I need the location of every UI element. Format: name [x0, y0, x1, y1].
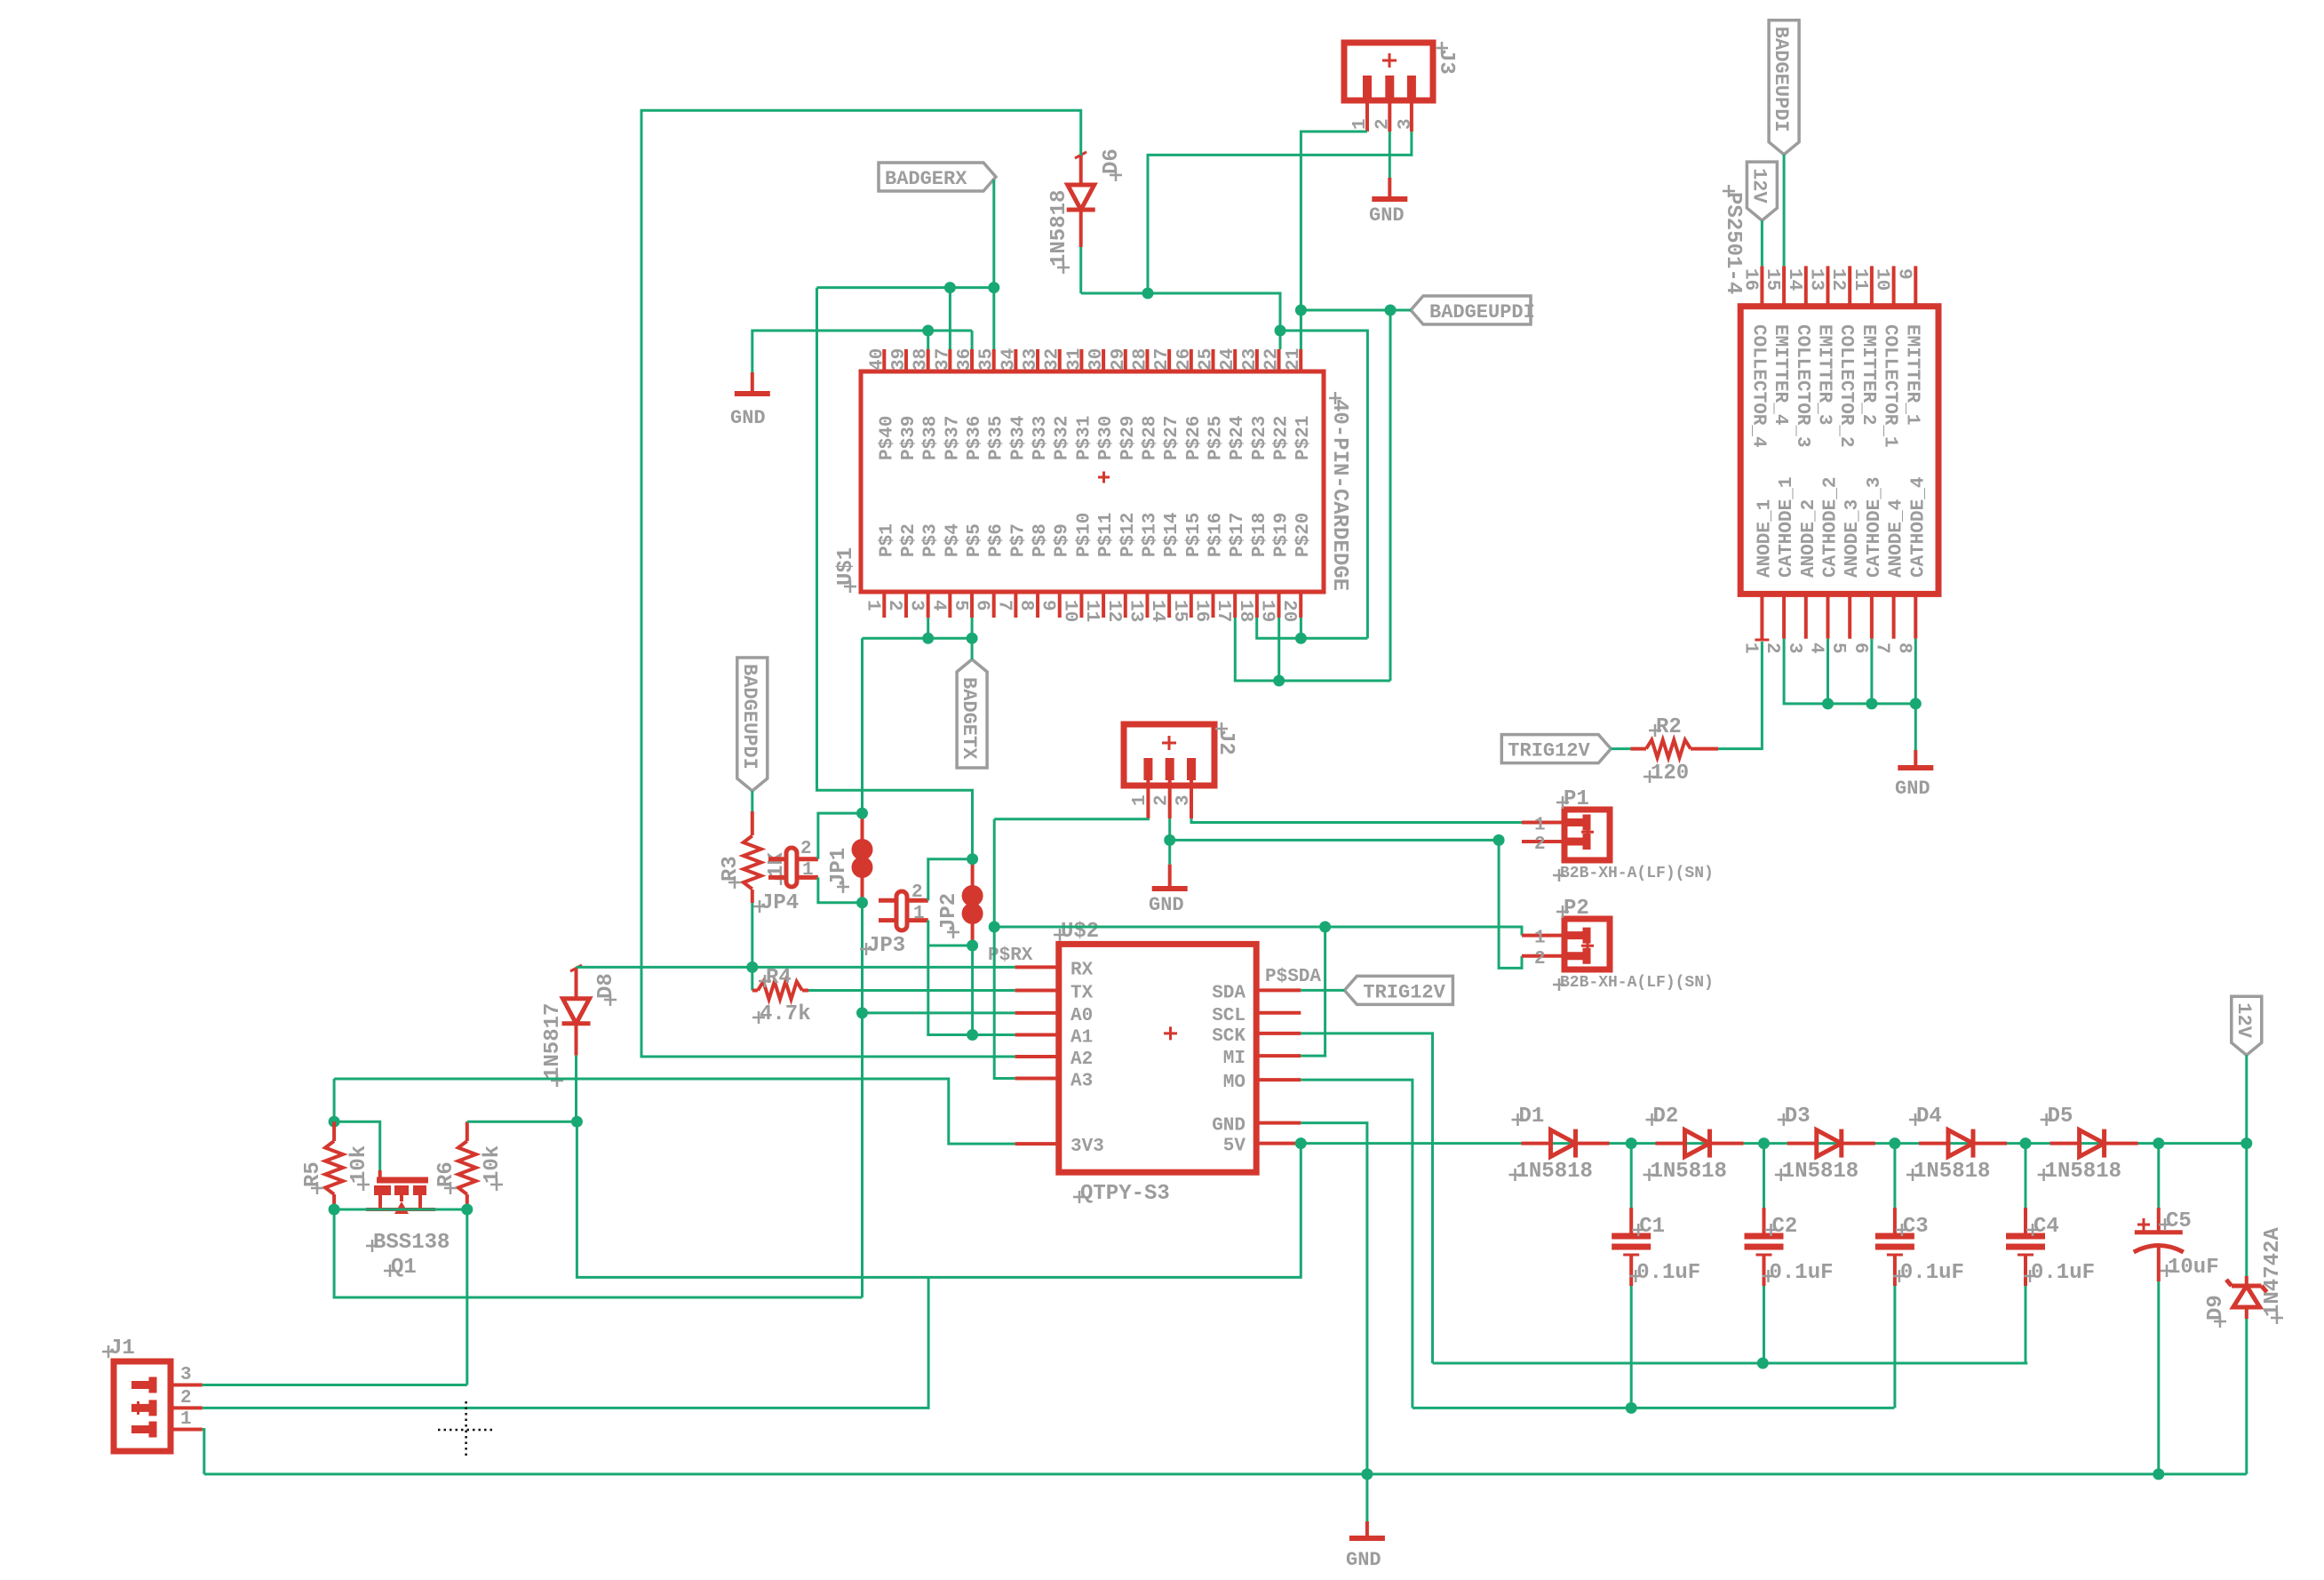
svg-text:18: 18	[1235, 600, 1255, 622]
wire C4 bottom	[2025, 1286, 2027, 1363]
wire JP4 pin1 bracket	[818, 877, 863, 902]
svg-text:P$6: P$6	[987, 523, 1007, 557]
svg-text:P$22: P$22	[1272, 416, 1293, 460]
svg-text:0.1uF: 0.1uF	[1636, 1261, 1700, 1285]
wire source down to A0 rail	[334, 1209, 862, 1297]
svg-text:1N5818: 1N5818	[2045, 1160, 2121, 1184]
wire MI/J2 row	[994, 927, 1522, 936]
wire J1 pin1 to GND rail	[203, 1430, 204, 1474]
jumper JP4	[753, 839, 818, 915]
resistor R3 1K	[719, 811, 789, 903]
svg-text:P$26: P$26	[1184, 416, 1205, 460]
svg-text:EMITTER_2: EMITTER_2	[1858, 324, 1878, 425]
net label TRIG12V (at SDA)	[1344, 976, 1452, 1004]
svg-text:P$16: P$16	[1206, 513, 1227, 557]
wire PS GND drop	[1914, 704, 1917, 750]
svg-text:P$4: P$4	[943, 523, 963, 557]
svg-text:P$9: P$9	[1053, 523, 1073, 557]
svg-text:JP3: JP3	[867, 934, 905, 958]
svg-text:RX: RX	[1070, 960, 1094, 980]
wire C1 top	[1630, 1144, 1633, 1208]
svg-text:13: 13	[1806, 268, 1827, 291]
wire 12V to pin16	[1761, 220, 1763, 266]
svg-text:2: 2	[1534, 949, 1546, 970]
junction Q1 source	[329, 1204, 340, 1216]
svg-text:3: 3	[1784, 642, 1804, 654]
wire pin20 stub	[1300, 618, 1302, 638]
junction R3/RX	[746, 962, 758, 973]
svg-text:P$24: P$24	[1228, 416, 1248, 460]
wire C4 top	[2025, 1144, 2027, 1208]
svg-text:P$19: P$19	[1272, 513, 1293, 557]
svg-text:1N5817: 1N5817	[541, 1003, 565, 1080]
svg-text:COLLECTOR_4: COLLECTOR_4	[1747, 324, 1768, 448]
wire JP4 pin2 bracket	[818, 813, 863, 859]
junction PS pin4	[1822, 698, 1834, 709]
wire A0 row	[863, 1011, 1015, 1014]
svg-text:GND: GND	[1895, 778, 1930, 800]
wire A1 row	[973, 1033, 1015, 1036]
svg-text:35: 35	[977, 348, 998, 371]
svg-text:D9: D9	[2204, 1295, 2228, 1321]
svg-text:BADGEUPDI: BADGEUPDI	[738, 664, 760, 770]
wire MO	[1301, 1080, 1413, 1408]
svg-text:0.1uF: 0.1uF	[2031, 1261, 2095, 1285]
svg-text:2: 2	[1373, 118, 1393, 130]
svg-text:P$34: P$34	[1008, 416, 1029, 460]
junction D6 row to J3 pin3	[1142, 288, 1154, 299]
connector P1 B2B-XH-A	[1522, 787, 1714, 882]
svg-text:20: 20	[1278, 600, 1299, 622]
svg-text:32: 32	[1043, 348, 1063, 371]
junction A0	[856, 1007, 868, 1018]
ground GND under J2	[1149, 840, 1188, 916]
svg-text:1: 1	[802, 860, 814, 881]
solder jumper JP2	[937, 859, 983, 946]
svg-text:P2: P2	[1564, 897, 1589, 921]
wire A0 riser down	[861, 1013, 864, 1297]
wire netA under U$1 (pins 17,19)	[1235, 618, 1390, 681]
svg-text:16: 16	[1191, 600, 1212, 622]
svg-text:EMITTER_4: EMITTER_4	[1770, 324, 1790, 425]
svg-text:3: 3	[180, 1365, 192, 1385]
junction 5V	[1295, 1137, 1307, 1149]
svg-text:P$20: P$20	[1293, 513, 1314, 557]
svg-text:P$5: P$5	[965, 523, 985, 557]
svg-text:MO: MO	[1223, 1073, 1246, 1093]
svg-text:P$40: P$40	[877, 416, 897, 460]
svg-text:C1: C1	[1639, 1215, 1665, 1239]
svg-text:TX: TX	[1070, 984, 1094, 1004]
svg-text:8: 8	[1015, 600, 1036, 611]
wire D6 bottom	[1079, 247, 1082, 293]
svg-text:R6: R6	[434, 1161, 458, 1187]
transistor Q1 BSS138	[366, 1170, 450, 1280]
wire drain to J1 pin3	[466, 1209, 468, 1385]
svg-text:1: 1	[1739, 642, 1760, 654]
svg-text:P$25: P$25	[1206, 416, 1227, 460]
diode D3 1N5818	[1775, 1105, 1858, 1184]
svg-text:33: 33	[1021, 348, 1041, 371]
svg-text:B2B-XH-A(LF)(SN): B2B-XH-A(LF)(SN)	[1560, 974, 1714, 992]
svg-text:A1: A1	[1070, 1028, 1093, 1049]
svg-text:P$21: P$21	[1293, 416, 1314, 460]
svg-text:5: 5	[1827, 642, 1848, 654]
junction rail2 C1	[1626, 1402, 1637, 1414]
svg-text:CATHODE_1: CATHODE_1	[1777, 477, 1797, 578]
svg-text:COLLECTOR_1: COLLECTOR_1	[1880, 324, 1900, 448]
svg-text:6: 6	[972, 600, 992, 611]
svg-text:P$31: P$31	[1074, 416, 1094, 460]
IC U$2 QTPY-S3	[1015, 920, 1301, 1206]
svg-text:P$32: P$32	[1053, 416, 1073, 460]
wire J1 pin2 riser	[203, 1277, 928, 1408]
svg-text:2: 2	[800, 839, 812, 859]
junction 12V rail x=2132	[1889, 1137, 1900, 1149]
svg-text:39: 39	[889, 348, 910, 371]
wire R6 top to D8	[467, 1121, 577, 1123]
wire J2 pin3 to P1 pin1	[1191, 818, 1522, 822]
wire D9 bottom	[2245, 1319, 2248, 1474]
svg-text:P$28: P$28	[1140, 416, 1160, 460]
svg-text:2: 2	[911, 882, 923, 903]
svg-text:38: 38	[911, 348, 932, 371]
svg-text:2: 2	[1534, 834, 1546, 855]
junction JP1 bottom	[856, 897, 868, 908]
junction pin37	[944, 282, 956, 293]
svg-text:34: 34	[999, 348, 1019, 371]
svg-text:1: 1	[1350, 118, 1371, 130]
junction PS pin6	[1866, 698, 1877, 709]
junction JP2 top	[967, 853, 978, 865]
svg-text:31: 31	[1064, 348, 1085, 371]
capacitor C1 0.1uF	[1612, 1208, 1700, 1286]
wire RX row (D8 to U$2 RX)	[577, 966, 1015, 969]
svg-text:P$23: P$23	[1250, 416, 1270, 460]
net label 12V (right)	[2232, 996, 2262, 1055]
wire BADGEUPDI to R3	[751, 791, 753, 811]
diode D1 1N5818	[1509, 1105, 1593, 1184]
connector J3	[1344, 42, 1458, 132]
svg-text:Q1: Q1	[391, 1256, 417, 1280]
wire J1 pin3	[203, 1384, 467, 1386]
svg-text:1N5818: 1N5818	[1047, 190, 1071, 267]
connector P2 B2B-XH-A	[1522, 897, 1714, 992]
junction JP1 top	[856, 808, 868, 819]
svg-text:0.1uF: 0.1uF	[1770, 1261, 1834, 1285]
svg-text:P$37: P$37	[943, 416, 963, 460]
svg-text:COLLECTOR_2: COLLECTOR_2	[1835, 324, 1856, 448]
wire A1 left loop	[928, 946, 973, 1035]
svg-text:P$39: P$39	[899, 416, 919, 460]
svg-text:BSS138: BSS138	[373, 1231, 450, 1255]
svg-text:30: 30	[1086, 348, 1107, 371]
svg-text:BADGERX: BADGERX	[885, 168, 967, 190]
svg-text:A0: A0	[1070, 1006, 1093, 1026]
svg-text:11: 11	[1850, 268, 1870, 291]
svg-text:17: 17	[1213, 600, 1233, 622]
svg-text:12: 12	[1103, 600, 1124, 622]
wire J2 pin1 down	[993, 819, 996, 927]
svg-text:P1: P1	[1564, 787, 1589, 811]
svg-text:21: 21	[1284, 348, 1304, 371]
svg-text:28: 28	[1130, 348, 1150, 371]
wire 12V rail	[1301, 1142, 2247, 1145]
svg-text:P$2: P$2	[899, 523, 919, 557]
net label TRIG12V (left)	[1501, 735, 1611, 763]
wire SCK	[1301, 1033, 1432, 1363]
wire D9 top	[2245, 1144, 2248, 1276]
svg-text:P$35: P$35	[987, 416, 1007, 460]
pin label P$RX	[988, 946, 1033, 966]
svg-text:26: 26	[1174, 348, 1195, 371]
svg-text:BADGEUPDI: BADGEUPDI	[1770, 27, 1792, 132]
svg-text:9: 9	[1038, 600, 1058, 611]
junction 12V rail x=1985	[1758, 1137, 1770, 1149]
junction pin35	[988, 282, 999, 293]
svg-text:P$29: P$29	[1118, 416, 1139, 460]
svg-text:1: 1	[862, 600, 882, 611]
svg-text:9: 9	[1893, 268, 1914, 280]
svg-text:P$7: P$7	[1008, 523, 1029, 557]
wire R3 bottom	[751, 903, 753, 967]
svg-text:11: 11	[1081, 600, 1102, 622]
svg-text:23: 23	[1240, 348, 1261, 371]
svg-text:C2: C2	[1772, 1215, 1798, 1239]
diode D5 1N5818	[2038, 1105, 2121, 1184]
wire C2 bottom	[1763, 1286, 1765, 1363]
svg-text:24: 24	[1218, 348, 1238, 371]
svg-text:3: 3	[906, 600, 927, 611]
svg-text:1: 1	[913, 904, 925, 924]
svg-text:BADGEUPDI: BADGEUPDI	[1429, 301, 1535, 323]
svg-text:C5: C5	[2166, 1209, 2192, 1233]
resistor R6 10k	[434, 1121, 505, 1209]
wire 12V flag to rail	[2245, 1055, 2248, 1143]
wire Q1 source rail	[334, 1209, 467, 1211]
junction 12V rail D9	[2240, 1137, 2252, 1149]
junction 12V rail x=2429	[2153, 1137, 2164, 1149]
svg-text:D5: D5	[2048, 1105, 2073, 1129]
wire U$2 GND down	[1301, 1123, 1367, 1474]
svg-text:25: 25	[1197, 348, 1217, 371]
svg-text:ANODE_2: ANODE_2	[1799, 499, 1819, 578]
wire pin36 stub	[971, 331, 974, 349]
wire BADGEUPDI to pin15	[1783, 155, 1786, 267]
wire J2 pin1	[994, 818, 1148, 821]
net label BADGEUPDI (mid)	[1411, 296, 1535, 324]
svg-text:GND: GND	[1212, 1116, 1246, 1137]
svg-text:P$17: P$17	[1228, 513, 1248, 557]
wire SDA to TRIG12V	[1301, 989, 1344, 992]
svg-text:TRIG12V: TRIG12V	[1508, 740, 1590, 762]
wire C5 top	[2157, 1144, 2160, 1208]
svg-text:1: 1	[180, 1409, 192, 1430]
wire pin38 stub	[927, 331, 929, 349]
wire BADGETX flag stub	[971, 638, 974, 659]
wire PS pin8 stub	[1914, 639, 1917, 704]
svg-text:2: 2	[180, 1388, 192, 1408]
svg-text:12: 12	[1827, 268, 1848, 291]
svg-text:3V3: 3V3	[1070, 1137, 1104, 1157]
wire pins36/38 GND row	[752, 331, 972, 372]
pin label P$SDA	[1265, 967, 1321, 987]
svg-text:40-PIN-CARDEDGE: 40-PIN-CARDEDGE	[1327, 399, 1351, 591]
svg-text:J3: J3	[1434, 49, 1458, 75]
svg-text:5V: 5V	[1223, 1137, 1246, 1157]
wire rail2 (C1/C3/MO)	[1413, 1407, 1894, 1409]
svg-text:15: 15	[1169, 600, 1190, 622]
svg-text:P$12: P$12	[1118, 513, 1139, 557]
wire pins3/5 riser to JP1	[861, 638, 864, 813]
svg-text:CATHODE_3: CATHODE_3	[1865, 477, 1885, 578]
svg-text:COLLECTOR_3: COLLECTOR_3	[1792, 324, 1812, 448]
svg-text:1: 1	[1130, 794, 1150, 806]
resistor R5 10k	[301, 1121, 371, 1209]
svg-text:14: 14	[1147, 600, 1167, 622]
wire MI riser	[1301, 927, 1325, 1056]
wire 3V3 to R5 top	[333, 1079, 336, 1121]
svg-text:U$1: U$1	[834, 547, 858, 586]
svg-text:1N5818: 1N5818	[1651, 1160, 1727, 1184]
svg-text:J2: J2	[1214, 730, 1238, 755]
svg-text:6: 6	[1850, 642, 1870, 654]
svg-text:40: 40	[867, 348, 887, 371]
wire pins35/37 row	[817, 286, 994, 289]
ground GND right	[1895, 750, 1933, 800]
svg-text:10: 10	[1059, 600, 1079, 622]
junction A1	[967, 1029, 978, 1041]
wire C1 bottom	[1630, 1286, 1633, 1408]
capacitor C5 10uF	[2134, 1208, 2219, 1281]
resistor R2 120	[1631, 715, 1719, 786]
svg-text:37: 37	[933, 348, 953, 371]
wire J2 pin2 GND	[1168, 818, 1171, 840]
svg-text:D4: D4	[1916, 1105, 1942, 1129]
svg-text:JP2: JP2	[937, 893, 961, 931]
svg-text:J1: J1	[109, 1337, 135, 1361]
wire top-left long (D6 to A2)	[641, 110, 1081, 1057]
svg-text:14: 14	[1784, 268, 1804, 291]
svg-text:5: 5	[950, 600, 970, 611]
wire PS pin6 stub	[1870, 639, 1873, 704]
svg-text:B2B-XH-A(LF)(SN): B2B-XH-A(LF)(SN)	[1560, 865, 1714, 882]
junction C5 GND rail	[2153, 1468, 2164, 1480]
wire netB under U$1 (pins 18,20)	[1257, 618, 1368, 638]
svg-text:1: 1	[1534, 816, 1546, 836]
junction JP2 bottom	[967, 940, 978, 952]
svg-text:P$18: P$18	[1250, 513, 1270, 557]
junction R5 top	[329, 1116, 340, 1128]
svg-text:10uF: 10uF	[2168, 1256, 2219, 1280]
junction on BADGEUPDI wire at pin21 column	[1295, 305, 1307, 316]
zener diode D9 1N4742A	[2204, 1227, 2285, 1328]
svg-text:10k: 10k	[347, 1145, 371, 1184]
svg-text:PS2501-4: PS2501-4	[1721, 192, 1745, 294]
svg-text:1N5818: 1N5818	[1914, 1160, 1990, 1184]
svg-text:P$33: P$33	[1031, 416, 1051, 460]
wire D8 bottom	[575, 1056, 577, 1122]
junction 12V rail x=1836	[1626, 1137, 1637, 1149]
svg-text:P$10: P$10	[1074, 513, 1094, 557]
wire D8 net to 5V rail	[577, 1121, 928, 1277]
wire JP2 to A1	[971, 946, 974, 1035]
wire pins3/5 row	[863, 637, 973, 640]
svg-text:P$15: P$15	[1184, 513, 1205, 557]
svg-text:R3: R3	[719, 856, 743, 882]
svg-text:4: 4	[1806, 642, 1827, 654]
wire pin37 stub	[949, 288, 951, 349]
svg-text:1N4742A: 1N4742A	[2261, 1227, 2285, 1317]
junction rail1 C2	[1757, 1358, 1769, 1369]
wire TRIG12V to R2	[1611, 747, 1630, 750]
svg-text:12V: 12V	[1747, 168, 1770, 203]
wire C5 bottom	[2157, 1281, 2160, 1474]
junction MI branch	[1319, 922, 1331, 933]
svg-text:JP4: JP4	[760, 891, 799, 915]
net label BADGETX	[957, 659, 987, 768]
svg-text:P$1: P$1	[877, 523, 897, 557]
svg-text:A3: A3	[1070, 1072, 1093, 1092]
svg-text:JP1: JP1	[827, 848, 851, 886]
svg-text:A2: A2	[1070, 1049, 1093, 1070]
svg-text:P$11: P$11	[1096, 513, 1117, 557]
svg-text:ANODE_1: ANODE_1	[1755, 499, 1775, 578]
svg-text:SCK: SCK	[1212, 1026, 1246, 1047]
junction J2 GND	[1164, 834, 1175, 846]
junction D8 bottom	[571, 1116, 583, 1128]
diode D6 1N5818	[1047, 148, 1124, 274]
svg-text:D6: D6	[1100, 148, 1124, 174]
capacitor C4 0.1uF	[2006, 1208, 2095, 1286]
svg-text:4: 4	[927, 600, 948, 611]
ground GND under J3	[1369, 178, 1407, 227]
junction pin5	[967, 633, 978, 644]
junction A3 riser top	[989, 922, 1000, 933]
wire GND rail (bottom)	[204, 1472, 2247, 1475]
wire C3 bottom	[1893, 1286, 1896, 1408]
net label BADGEUPDI (left)	[737, 658, 768, 791]
wire JP3 pin2 bracket	[928, 859, 973, 901]
svg-text:36: 36	[955, 348, 975, 371]
wire pin19 stub	[1277, 618, 1280, 681]
PS pin1 tick	[1755, 639, 1769, 642]
svg-text:2: 2	[884, 600, 904, 611]
svg-text:0.1uF: 0.1uF	[1900, 1261, 1964, 1285]
net label BADGEUPDI (top right)	[1769, 20, 1799, 155]
wire PS pins 2/4/6/8 to GND	[1784, 639, 1915, 704]
wire riser to BADGETX row	[817, 288, 973, 859]
svg-text:P$14: P$14	[1162, 513, 1182, 557]
capacitor C3 0.1uF	[1875, 1208, 1964, 1286]
junction pin3	[922, 633, 934, 644]
junction 12V rail x=2280	[2020, 1137, 2032, 1149]
junction Q1 drain	[461, 1204, 473, 1216]
wire pin5 stub	[971, 618, 974, 638]
svg-text:C4: C4	[2033, 1215, 2059, 1239]
wire BADGERX to pin35	[992, 180, 995, 288]
wire pin3 stub	[927, 618, 929, 638]
IC PS2501-4	[1721, 185, 1938, 654]
svg-text:1N5818: 1N5818	[1782, 1160, 1858, 1184]
wire D6 row	[1081, 293, 1280, 349]
svg-text:SCL: SCL	[1212, 1006, 1246, 1026]
svg-text:2: 2	[1762, 642, 1782, 654]
junction P1 pin2 branch	[1493, 834, 1505, 846]
wire pin35 stub	[992, 288, 995, 349]
svg-text:7: 7	[1872, 642, 1892, 654]
junction P$22 column	[1275, 325, 1286, 337]
